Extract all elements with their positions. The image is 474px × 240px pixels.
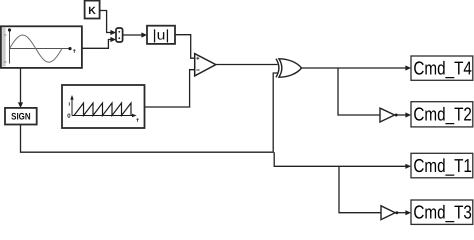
svg-text:SIGN: SIGN [11, 111, 31, 122]
svg-text:Cmd_T3: Cmd_T3 [413, 202, 472, 223]
svg-text:Cmd_T2: Cmd_T2 [413, 104, 472, 125]
svg-text:|u|: |u| [153, 27, 170, 43]
svg-text:Cmd_T4: Cmd_T4 [413, 58, 472, 79]
svg-text:K: K [88, 5, 96, 17]
svg-text:Cmd_T1: Cmd_T1 [413, 155, 472, 176]
